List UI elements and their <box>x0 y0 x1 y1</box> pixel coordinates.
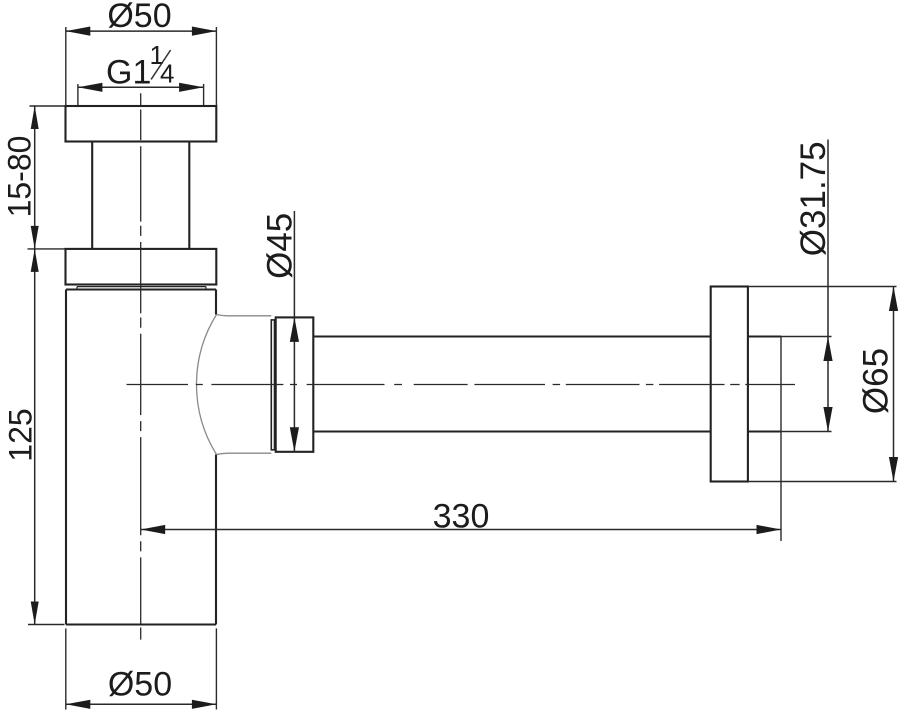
svg-text:Ø45: Ø45 <box>261 213 300 279</box>
svg-text:Ø50: Ø50 <box>107 0 171 35</box>
svg-text:125: 125 <box>3 408 39 461</box>
svg-text:Ø65: Ø65 <box>856 348 895 414</box>
svg-text:Ø31.75: Ø31.75 <box>794 141 833 256</box>
svg-text:15-80: 15-80 <box>2 136 38 218</box>
svg-text:330: 330 <box>433 498 490 536</box>
svg-text:Ø50: Ø50 <box>108 666 172 704</box>
svg-text:G1: G1 <box>106 53 151 91</box>
